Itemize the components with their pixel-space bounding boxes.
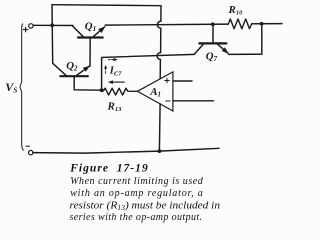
node + input terminal bbox=[29, 24, 33, 28]
svg-text:Figure 17-19: Figure 17-19 bbox=[69, 163, 148, 175]
wire op-amp noninverting input stub bbox=[173, 80, 192, 82]
transistor Q1 bbox=[72, 26, 105, 66]
wire op-amp inverting input stub bbox=[173, 100, 214, 102]
wire Q7 emitter to output node bbox=[229, 24, 262, 55]
junction output node bbox=[260, 22, 264, 26]
resistor R10 bbox=[228, 19, 251, 29]
wire top rail from +supply to op-amp V+ bbox=[52, 5, 161, 6]
node - output terminal bbox=[29, 150, 33, 154]
svg-text:resistor (R13) must be include: resistor (R13) must be included in bbox=[70, 200, 221, 212]
wire output bbox=[252, 23, 282, 25]
svg-text:with an op-amp regulator, a: with an op-amp regulator, a bbox=[70, 188, 203, 199]
wire Q1 emitter rail to R10 bbox=[105, 24, 228, 25]
junction bottom rail bbox=[158, 149, 162, 153]
transistor Q7 bbox=[194, 24, 228, 54]
resistor R13 bbox=[102, 88, 138, 95]
wire + supply to Q1 collector bbox=[33, 24, 73, 26]
svg-text:When current limiting is used: When current limiting is used bbox=[70, 176, 204, 187]
source V_S left edge line with brace bbox=[20, 24, 23, 151]
junction R13 node bbox=[100, 88, 104, 92]
current annotation base current arrow bbox=[113, 81, 125, 83]
wire bottom rail bbox=[33, 148, 219, 153]
junction supply rail / left vertical bbox=[50, 23, 54, 27]
op-amp A1 bbox=[137, 72, 173, 111]
wire Q2 base node up and right to Q7 collector bbox=[102, 54, 195, 90]
transistor Q2 bbox=[53, 63, 102, 90]
junction Q7 base on rail bbox=[211, 22, 215, 26]
svg-text:series with the op-amp output.: series with the op-amp output. bbox=[70, 212, 203, 223]
wire op-amp V+ supply (hops over rails) bbox=[157, 6, 161, 79]
wire op-amp V- supply to bottom rail bbox=[158, 104, 161, 151]
wire left vertical from top rail to Q2 collector bbox=[51, 5, 54, 64]
current annotation IC7 bbox=[104, 58, 122, 78]
